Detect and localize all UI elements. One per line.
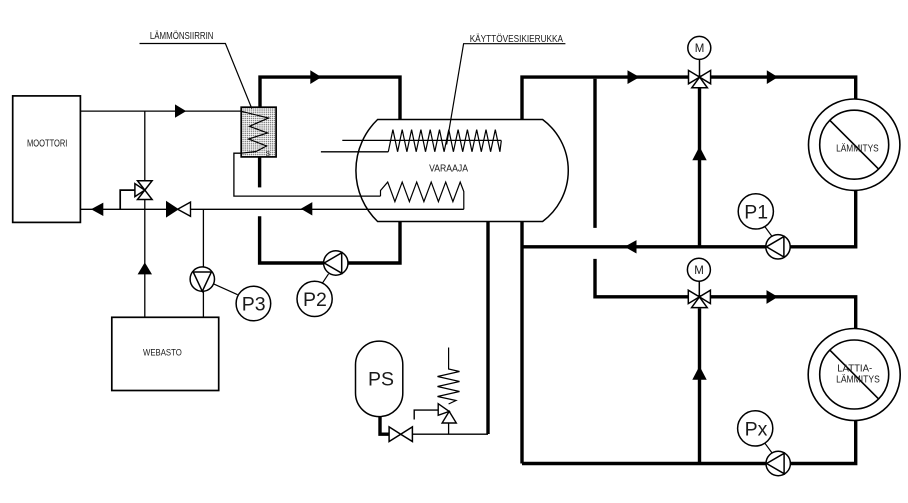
arrow right after M2 [767,290,778,304]
pipe PS vessel outlet L [380,417,389,435]
svg-text:P1: P1 [744,201,768,223]
svg-text:M: M [695,43,705,55]
pipe P2 loop bottom [260,216,400,263]
valve 3-way mixing near engine [135,181,152,200]
arrow left on engine return [91,203,103,216]
label pointer KAYTTOVESIKIERUKKA [447,44,566,145]
pipe circuit1 valve return riser x=699.5 [698,88,701,247]
tank VARAAJA outline [356,120,568,222]
box WEBASTO [112,317,219,390]
svg-text:WEBASTO: WEBASTO [143,347,182,358]
motor M2 circle [687,258,710,281]
pipe exchanger bottom stub [258,157,261,188]
radiator circle LAMMITYS [809,99,900,190]
label circle P2 [297,281,332,316]
wire cold water feed line y=434 [412,433,488,435]
arrow left on tank return line [301,202,313,215]
svg-text:MOOTTORI: MOOTTORI [27,137,67,149]
pipe heating circle 2 down to bottom return [522,421,856,464]
label circle P3 [236,286,271,321]
wire P2 label leader [322,274,328,284]
radiator circle LATTIA-LAMMITYS [808,329,900,421]
label pointer LAMMONSIIRRIN [140,44,252,109]
wire engine return line y=209.3 [80,208,463,210]
arrow up on valve2 return riser [692,366,706,380]
box MOOTTORI [13,96,81,222]
svg-text:M: M [694,265,704,277]
wire domestic water stub lower y=151.8 [321,151,388,153]
arrow up on webasto riser [138,262,152,274]
arrow right after M1 [767,70,778,84]
pipe exchanger top to tank top port [260,77,400,120]
wire 3-way valve riser x=144.8 [144,111,146,181]
pipe circuit2 valve return riser x=699.5 [698,308,701,463]
motor M1 circle [688,36,711,59]
wire P3 label leader [213,284,237,295]
wire safety valve stem [448,423,450,434]
coil domestic hot water (top zigzag) [388,130,501,152]
arrow left on circuit1 return [625,240,637,253]
valve M2 motorized 3-way [688,281,710,308]
pipe cold water riser x=488 [486,222,489,435]
coil inside heat exchanger [241,111,268,153]
wire P1 label leader [764,226,772,236]
svg-text:PS: PS [368,368,394,390]
svg-text:LÄMMÖNSIIRRIN: LÄMMÖNSIIRRIN [150,30,214,42]
pipe circuit2 branch lower segment to valve2 [595,259,856,329]
pump P2 [324,251,348,275]
svg-text:P3: P3 [242,293,266,315]
heat exchanger U1 (stippled box) [241,107,276,157]
svg-text:LÄMMITYS: LÄMMITYS [836,374,880,386]
arrow right on engine supply [175,104,186,117]
label circle P1 [738,194,773,229]
svg-text:VARAAJA: VARAAJA [429,162,468,174]
wire domestic water stub upper y=140.4 [342,139,501,141]
vessel PS (expansion) [356,341,403,417]
wire webasto left riser x=144.8 [144,200,146,318]
valve shut-off on engine return [167,202,178,216]
svg-text:P2: P2 [303,289,327,311]
wire exchanger outlet L to tank bottom coil [234,153,381,196]
wire webasto right riser to P3 x=203.4 [202,209,204,317]
label circle Px [738,411,773,446]
coil tank bottom (coarse zigzag) [381,182,464,209]
svg-text:LÄMMITYS: LÄMMITYS [836,142,879,154]
svg-text:KÄYTTÖVESIKIERUKKA: KÄYTTÖVESIKIERUKKA [470,33,563,45]
wire safety valve drain L [414,410,438,419]
valve M1 motorized 3-way [689,59,711,87]
pipe heating circle 1 down to return [522,190,856,247]
pump Px [766,451,790,475]
spring of safety valve [438,348,460,405]
arrow right on supply before M1 [628,70,640,84]
wire engine supply line y=111 [80,110,241,112]
valve shut-off on PS line [389,427,412,442]
svg-text:S: S [266,151,271,158]
wire bypass L to 3-way valve [120,190,135,209]
arrow up on valve1 return riser [692,147,706,161]
valve safety relief (angle valve with spring) [438,404,456,423]
svg-text:LATTIA-: LATTIA- [837,364,872,375]
wire Px label leader [765,443,773,453]
pipe tank top supply riser x=522 [522,77,856,120]
svg-text:Px: Px [745,418,768,440]
arrow right on exchanger top pipe [310,70,321,84]
pipe return trunk x=522 tank bottom [520,222,523,464]
pump P1 [766,235,790,259]
pump P3 [190,267,214,291]
pipe circuit2 branch upper segment x=595 [593,79,596,228]
